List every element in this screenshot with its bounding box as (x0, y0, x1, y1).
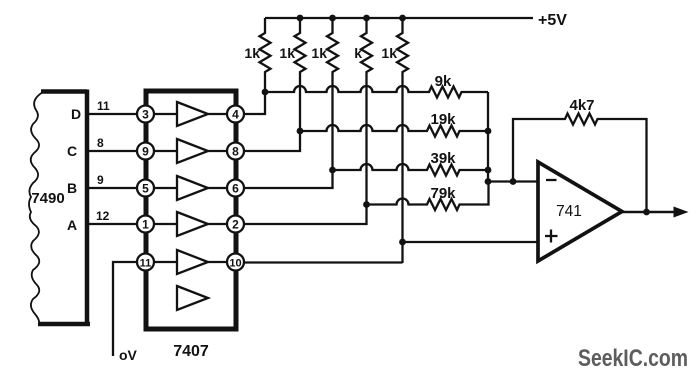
wire pin 8 riser to summing row 2 (244, 131, 300, 151)
wire row 4 with crossover hop and resistor 79k (367, 182, 489, 211)
svg-text:79k: 79k (430, 185, 456, 202)
svg-text:1k: 1k (381, 45, 397, 61)
junction dot row3/R3 (329, 167, 336, 174)
svg-text:4k7: 4k7 (569, 97, 594, 114)
svg-text:10: 10 (229, 258, 241, 270)
IC 7407 hex buffer box (146, 91, 236, 329)
svg-text:7407: 7407 (173, 343, 209, 360)
pin circle 2 (227, 216, 244, 233)
buffer 5 triangle (177, 250, 208, 274)
buffer 1 triangle (177, 102, 208, 126)
svg-text:6: 6 (232, 182, 239, 196)
output arrowhead (674, 207, 689, 218)
wire pin 10 to non-inverting input (244, 261, 403, 263)
resistor 1k (R1 pull-up, pin 4 line) (260, 18, 271, 92)
buffer 2 input wire (153, 150, 177, 152)
pin circle 5 (137, 180, 154, 197)
svg-text:9k: 9k (435, 73, 452, 90)
buffer 6 triangle (unused) (177, 286, 208, 310)
buffer 4 triangle (177, 212, 208, 236)
+5V supply rail (265, 17, 533, 19)
junction dot row4/R4 (363, 201, 370, 208)
junction dot rail/R4 (363, 15, 370, 22)
wire op-amp output (622, 211, 676, 213)
wire pin 11 to 0V rail (113, 262, 137, 356)
svg-text:+5V: +5V (538, 12, 567, 29)
buffer 2 triangle (177, 139, 208, 163)
resistor 1k (R4 pull-up, pin 2 line, label "k") (361, 18, 372, 205)
wire row 1 with crossover hops and resistor 9k (265, 86, 488, 98)
junction dot bus/row2 (485, 128, 492, 135)
buffer 3 output wire (208, 187, 228, 189)
svg-text:9: 9 (97, 173, 104, 187)
wire A output to buffer pin 1 (87, 223, 138, 225)
svg-text:A: A (67, 217, 77, 233)
buffer 5 output wire (208, 261, 228, 263)
buffer 4 output wire (208, 223, 228, 225)
pin circle 9 (137, 143, 154, 160)
junction dot rail/R3 (329, 15, 336, 22)
wire summing bus node (487, 92, 489, 182)
wire D output to buffer pin 3 (87, 113, 138, 115)
svg-text:k: k (354, 45, 362, 61)
pin circle 8 (227, 143, 244, 160)
wire row 2 with crossover hops and resistor 19k (300, 125, 488, 137)
wire pin 2 riser to summing row 4 (244, 205, 367, 225)
pin circle 11 (137, 254, 154, 271)
wire non-inverting input row (403, 241, 539, 243)
svg-text:1: 1 (142, 218, 149, 232)
pin circle 1 (137, 216, 154, 233)
junction dot bus/row3 (485, 167, 492, 174)
junction dot row1/R1 (262, 89, 269, 96)
svg-text:8: 8 (232, 145, 239, 159)
svg-text:11: 11 (140, 258, 152, 270)
junction dot feedback tap (510, 178, 517, 185)
wire B output to buffer pin 5 (87, 187, 138, 189)
svg-text:1k: 1k (311, 45, 327, 61)
feedback resistor 4k7 and loop wire (513, 114, 647, 213)
resistor 1k (R2 pull-up, pin 8 line) (295, 18, 306, 131)
wire inverting input (488, 180, 538, 182)
op-amp 741 (538, 162, 622, 261)
svg-text:1k: 1k (244, 45, 260, 61)
buffer 1 output wire (208, 113, 228, 115)
svg-text:11: 11 (97, 99, 110, 113)
resistor 1k (R3 pull-up, pin 6 line) (327, 18, 338, 170)
svg-text:C: C (67, 143, 77, 159)
op-amp minus sign (546, 179, 557, 181)
buffer 4 input wire (153, 223, 177, 225)
svg-text:9: 9 (142, 145, 149, 159)
wire row 3 with crossover hops and resistor 39k (333, 164, 489, 176)
svg-text:5: 5 (142, 182, 149, 196)
buffer 3 input wire (153, 187, 177, 189)
svg-text:741: 741 (556, 203, 582, 220)
pin circle 10 (227, 254, 244, 271)
svg-text:4: 4 (232, 108, 239, 122)
junction dot rail/R5 (399, 15, 406, 22)
svg-text:D: D (71, 106, 81, 122)
svg-text:39k: 39k (430, 150, 456, 167)
op-amp plus sign (545, 230, 558, 243)
svg-text:19k: 19k (430, 111, 456, 128)
svg-text:8: 8 (97, 136, 104, 150)
junction dot rail/R2 (297, 15, 304, 22)
resistor 1k (R5 pull-up, pin 10 line) (397, 18, 408, 263)
svg-text:2: 2 (232, 218, 239, 232)
wire C output to buffer pin 9 (87, 150, 138, 152)
svg-text:B: B (67, 180, 77, 196)
svg-text:oV: oV (119, 347, 138, 363)
junction dot row2/R2 (297, 128, 304, 135)
junction dot bus/inverting input (485, 178, 492, 185)
svg-text:3: 3 (142, 108, 149, 122)
buffer 2 output wire (208, 150, 228, 152)
svg-text:1k: 1k (279, 45, 295, 61)
pin circle 6 (227, 180, 244, 197)
wire pin 4 riser to summing row 1 (244, 92, 265, 114)
buffer 1 input wire (153, 113, 177, 115)
buffer 5 input wire (153, 261, 177, 263)
pin circle 3 (137, 106, 154, 123)
svg-text:SeekIC.com: SeekIC.com (578, 345, 688, 372)
svg-text:12: 12 (96, 209, 110, 223)
junction dot R5/non-inverting row (399, 239, 406, 246)
junction dot output/feedback (643, 209, 650, 216)
wire pin 6 riser to summing row 3 (244, 170, 333, 188)
svg-text:7490: 7490 (31, 190, 64, 207)
buffer 3 triangle (177, 176, 208, 200)
pin circle 4 (227, 106, 244, 123)
IC 7490 counter box (torn left edge) (29, 90, 90, 327)
